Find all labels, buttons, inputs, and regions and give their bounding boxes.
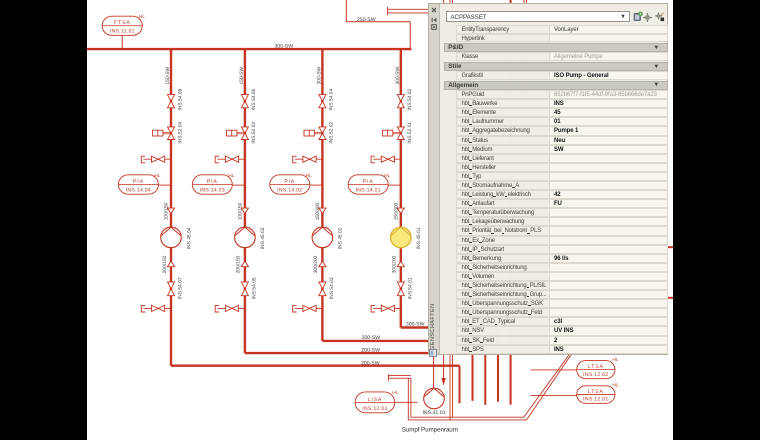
svg-text:100/150: 100/150 — [164, 202, 170, 220]
svg-text:INS.14.04: INS.14.04 — [126, 188, 151, 194]
svg-text:INS.14.01: INS.14.01 — [356, 188, 381, 194]
svg-text:PIA: PIA — [133, 179, 144, 185]
svg-text:INS.45.03: INS.45.03 — [260, 227, 266, 249]
svg-text:INS.12.03: INS.12.03 — [362, 406, 387, 412]
svg-text:250-SW: 250-SW — [357, 17, 376, 23]
svg-text:INS.12.01: INS.12.01 — [583, 397, 608, 403]
svg-text:INS.54.08: INS.54.08 — [177, 88, 183, 110]
svg-text:INS.52.04: INS.52.04 — [177, 122, 183, 144]
svg-text:HL: HL — [154, 173, 160, 179]
svg-text:300/200: 300/200 — [313, 255, 319, 273]
svg-text:300/200: 300/200 — [392, 255, 398, 273]
svg-text:200/150: 200/150 — [236, 255, 242, 273]
svg-text:300-SW: 300-SW — [406, 322, 425, 328]
svg-text:300-SW: 300-SW — [362, 335, 381, 341]
svg-text:Sumpf Pumpenraum: Sumpf Pumpenraum — [402, 427, 458, 434]
svg-text:300-SW: 300-SW — [316, 66, 322, 84]
svg-text:HL: HL — [384, 173, 390, 179]
svg-text:INS.45.01: INS.45.01 — [416, 227, 422, 249]
svg-text:LTSA: LTSA — [588, 389, 604, 395]
svg-text:PIA: PIA — [207, 179, 218, 185]
svg-text:INS.54.06: INS.54.06 — [251, 88, 257, 110]
svg-text:INS.52.03: INS.52.03 — [251, 122, 257, 144]
svg-text:INS.54.07: INS.54.07 — [178, 277, 184, 299]
svg-text:100/150: 100/150 — [238, 202, 244, 220]
svg-text:HL: HL — [228, 173, 234, 179]
svg-text:300-SW: 300-SW — [395, 66, 401, 84]
svg-text:INS.52.01: INS.52.01 — [407, 122, 413, 144]
svg-text:FTSA: FTSA — [114, 20, 130, 26]
svg-text:HL: HL — [392, 390, 398, 396]
svg-text:300-SW: 300-SW — [275, 43, 294, 49]
svg-text:INS.54.01: INS.54.01 — [407, 277, 413, 299]
svg-text:PIA: PIA — [284, 179, 295, 185]
svg-text:200-SW: 200-SW — [361, 360, 380, 366]
svg-text:200/150: 200/150 — [162, 255, 168, 273]
svg-text:HL: HL — [612, 357, 618, 363]
svg-text:HL: HL — [612, 382, 618, 388]
svg-text:INS.54.02: INS.54.02 — [407, 88, 413, 110]
svg-text:PIA: PIA — [363, 179, 374, 185]
svg-text:200-SW: 200-SW — [361, 347, 380, 353]
svg-text:INS.52.02: INS.52.02 — [329, 122, 335, 144]
svg-text:INS.45.04: INS.45.04 — [186, 227, 192, 249]
svg-text:INS.54.04: INS.54.04 — [329, 88, 335, 110]
svg-text:150/300: 150/300 — [394, 202, 400, 220]
svg-text:LTSA: LTSA — [588, 364, 604, 370]
svg-text:HL: HL — [306, 173, 312, 179]
svg-text:INS.12.02: INS.12.02 — [583, 372, 608, 378]
svg-text:150-SW: 150-SW — [165, 66, 171, 84]
svg-text:150-SW: 150-SW — [239, 66, 245, 84]
svg-text:INS.54.03: INS.54.03 — [329, 277, 335, 299]
svg-text:LISA: LISA — [368, 397, 382, 403]
svg-text:INS.45.02: INS.45.02 — [338, 227, 344, 249]
svg-text:HL: HL — [139, 14, 145, 20]
svg-text:150/300: 150/300 — [315, 202, 321, 220]
svg-text:INS.14.03: INS.14.03 — [200, 188, 225, 194]
svg-text:INS.41.01: INS.41.01 — [422, 410, 445, 416]
svg-text:INS.14.02: INS.14.02 — [277, 188, 302, 194]
svg-text:INS.54.05: INS.54.05 — [251, 277, 257, 299]
svg-text:INS.11.01: INS.11.01 — [110, 29, 135, 35]
